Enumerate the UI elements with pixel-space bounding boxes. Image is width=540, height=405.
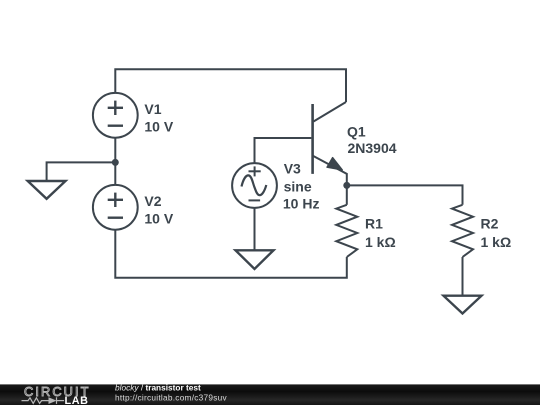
svg-text:R1: R1 — [365, 216, 383, 232]
svg-text:V2: V2 — [144, 193, 161, 209]
svg-text:blocky / transistor test: blocky / transistor test — [115, 383, 201, 393]
svg-text:http://circuitlab.com/c379suv: http://circuitlab.com/c379suv — [115, 393, 228, 403]
svg-text:R2: R2 — [481, 216, 499, 232]
svg-text:Q1: Q1 — [347, 124, 366, 140]
svg-text:1 kΩ: 1 kΩ — [481, 234, 512, 250]
svg-text:V3: V3 — [284, 161, 301, 177]
svg-text:V1: V1 — [144, 101, 161, 117]
svg-text:sine: sine — [284, 179, 312, 195]
svg-text:1 kΩ: 1 kΩ — [365, 234, 396, 250]
svg-text:2N3904: 2N3904 — [348, 140, 397, 156]
svg-text:10 V: 10 V — [144, 118, 173, 134]
svg-text:10 V: 10 V — [144, 210, 173, 226]
svg-text:LAB: LAB — [65, 395, 89, 405]
svg-text:10 Hz: 10 Hz — [283, 196, 320, 212]
